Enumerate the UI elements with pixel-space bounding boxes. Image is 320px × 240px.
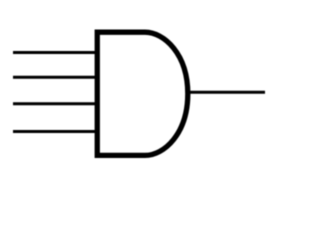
wire: input 1 xyxy=(13,51,98,54)
wire: input 4 xyxy=(13,130,98,133)
wire: input 2 xyxy=(13,76,98,79)
AND gate U1 body xyxy=(97,32,188,155)
wire: output xyxy=(187,91,266,94)
wire: input 3 xyxy=(13,102,98,105)
